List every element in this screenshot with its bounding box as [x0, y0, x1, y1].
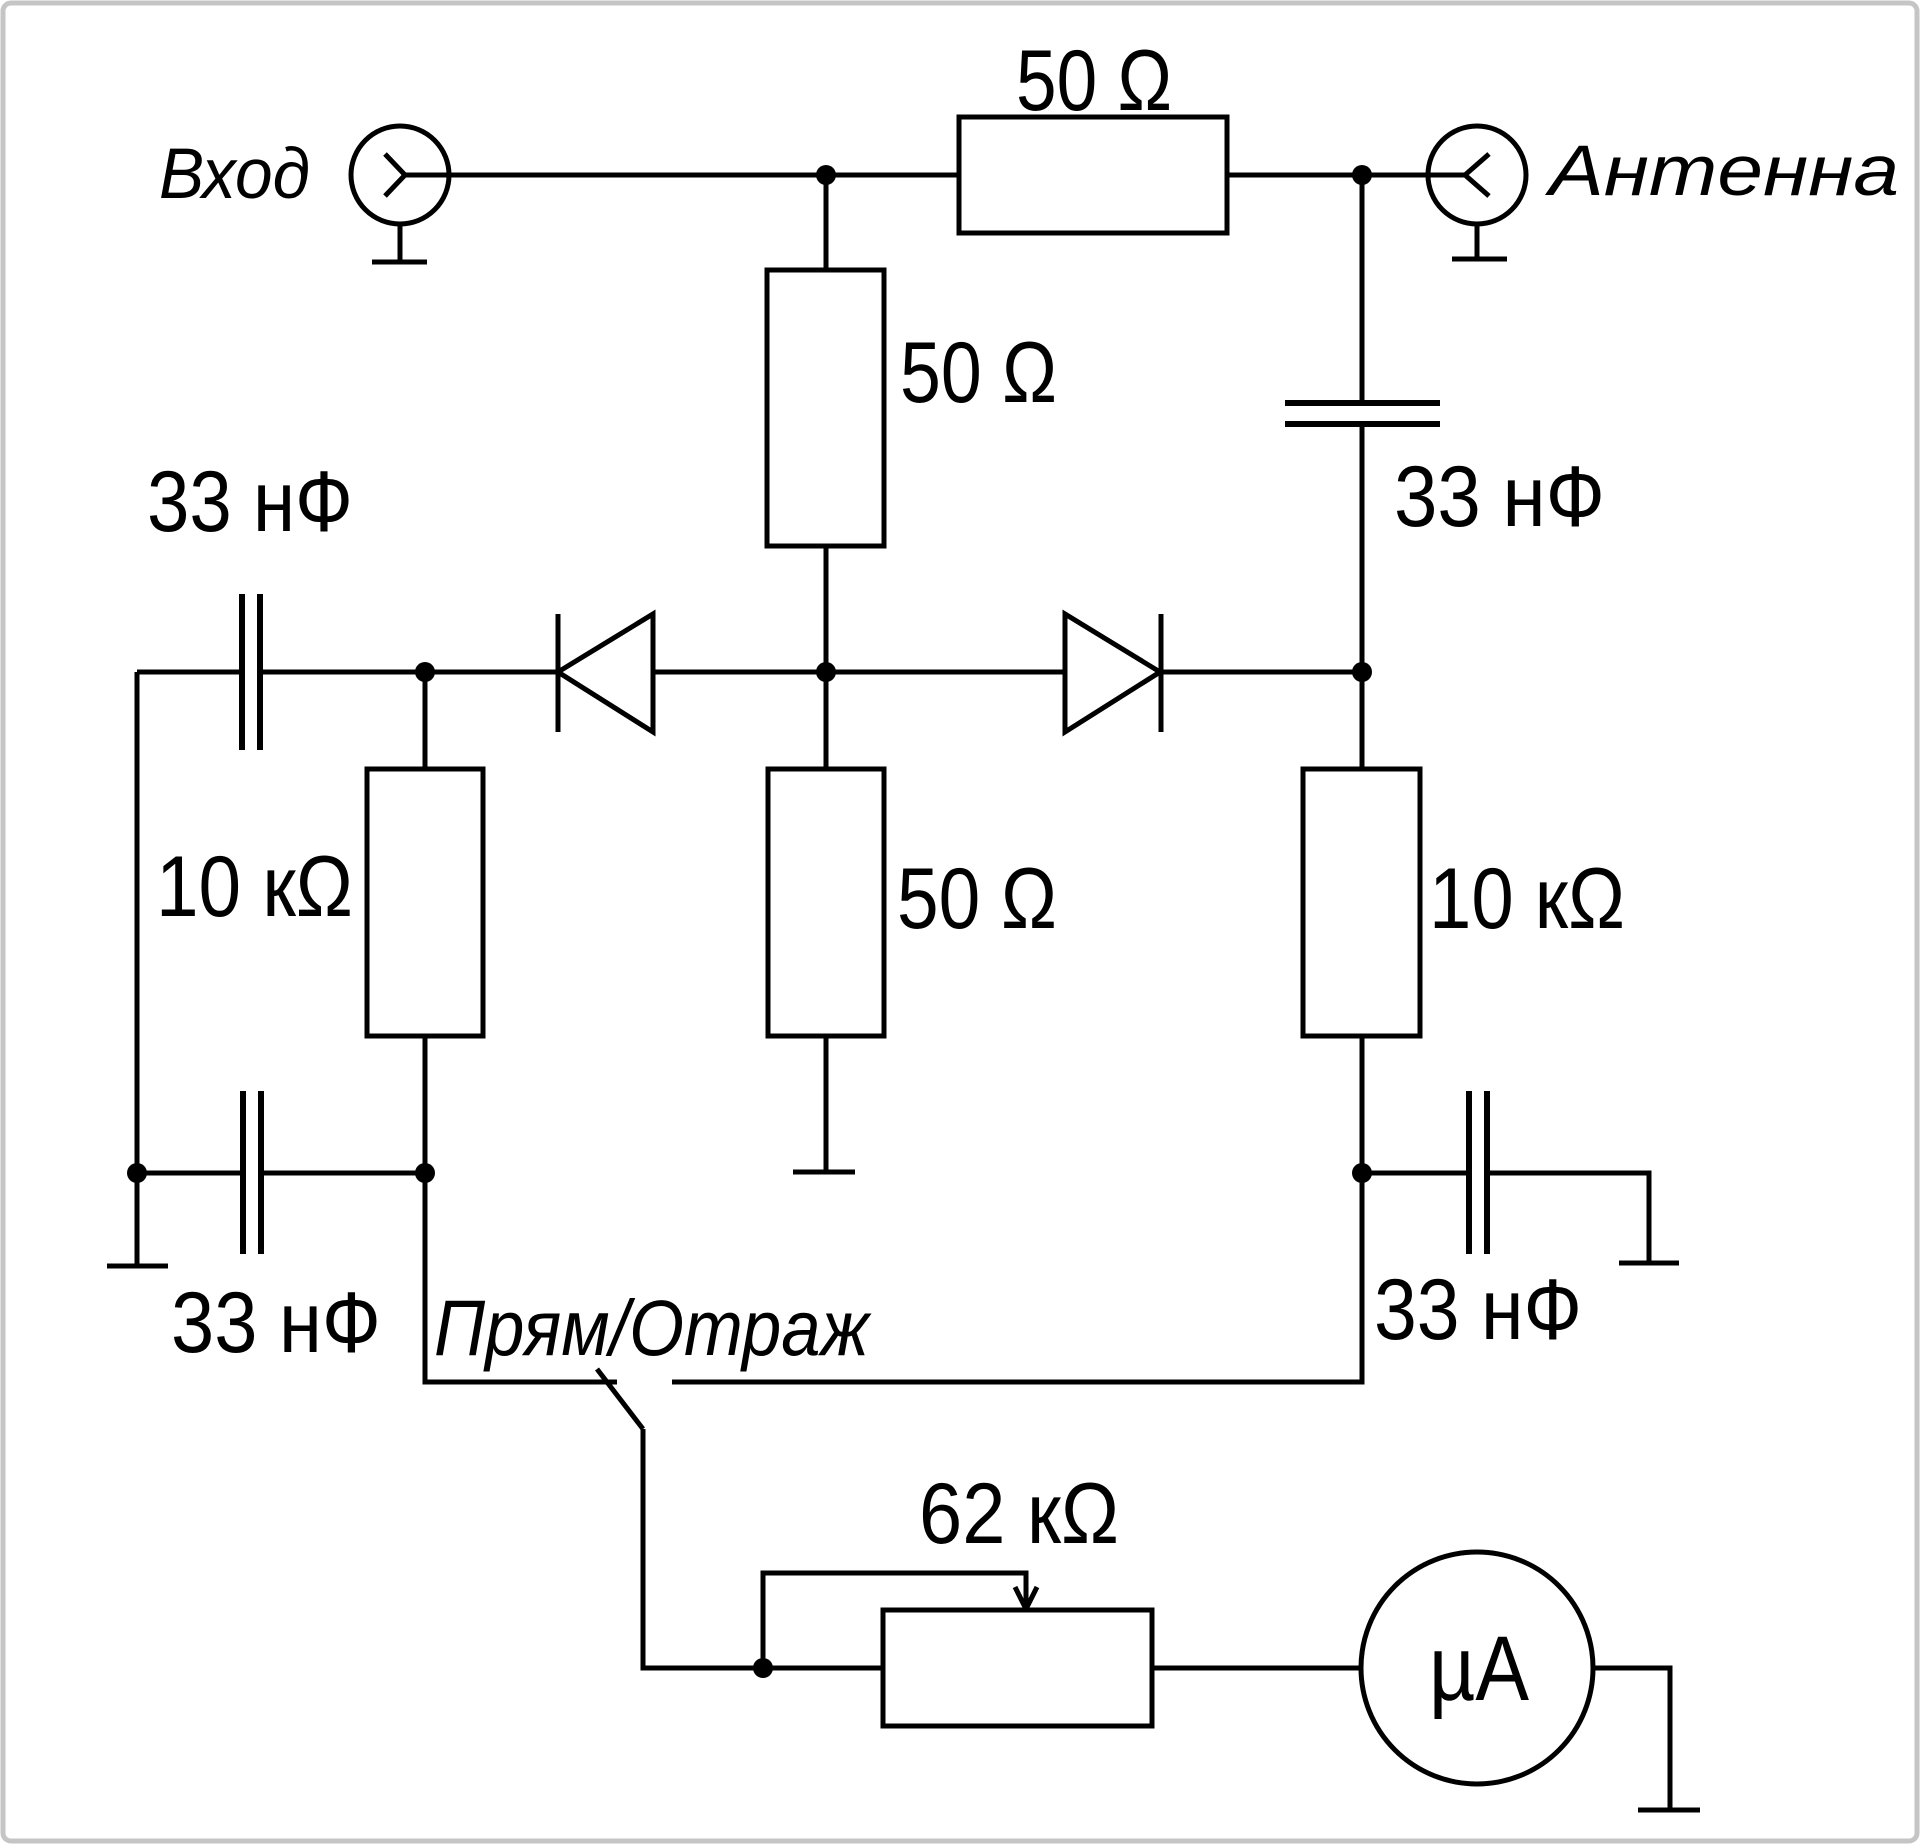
capacitor C1 33нФ	[1285, 403, 1440, 424]
wire left rail to C3	[137, 1171, 243, 1176]
svg-text:50 Ω: 50 Ω	[1016, 33, 1172, 129]
wire R1 to antenna node	[1227, 173, 1465, 178]
wire node A down to R2	[824, 175, 829, 270]
wire left node down to R3	[423, 672, 428, 769]
svg-text:Вход: Вход	[159, 135, 310, 214]
wire C4 to ground	[1487, 1173, 1649, 1263]
wire VD1 to middle node	[653, 670, 826, 675]
resistor R5 10кΩ (right)	[1303, 769, 1420, 1036]
ground (Антенна)	[1452, 223, 1507, 259]
wire Вход to R1	[405, 173, 959, 178]
svg-text:33 нФ: 33 нФ	[1394, 449, 1605, 545]
junction left mid node	[415, 662, 435, 682]
wire switch pole down to potentiometer node	[643, 1429, 883, 1668]
wire R5 to bottom right rail	[1360, 1036, 1365, 1173]
svg-text:50 Ω: 50 Ω	[897, 851, 1057, 947]
ground (left rail)	[107, 1173, 168, 1266]
ground (C4)	[1619, 1261, 1679, 1266]
wire left rail vertical	[135, 672, 140, 1173]
wire right node down to R5	[1360, 672, 1365, 769]
wire R2 to middle node	[824, 546, 829, 672]
meter PA1 µA	[1361, 1552, 1593, 1784]
svg-text:10 кΩ: 10 кΩ	[1429, 851, 1625, 947]
resistor R3 10кΩ (left)	[367, 769, 483, 1036]
svg-text:33 нФ: 33 нФ	[147, 454, 353, 550]
wire right bottom node to C4	[1362, 1171, 1469, 1176]
wire potentiometer to meter	[1152, 1666, 1361, 1671]
wire switch right contact to right bottom node	[672, 1173, 1362, 1382]
svg-text:µA: µA	[1429, 1618, 1530, 1720]
ground (Вход)	[372, 223, 427, 262]
connector X2 Антенна	[1428, 126, 1526, 224]
wire node B down to C1	[1360, 175, 1365, 403]
wire middle row left corner	[137, 670, 242, 675]
wire C3 to left bottom node	[261, 1171, 425, 1176]
wire R4 to ground	[824, 1036, 829, 1172]
ground (R4)	[793, 1170, 855, 1175]
capacitor C3 33нФ (bottom left)	[243, 1091, 261, 1254]
svg-text:62 кΩ: 62 кΩ	[919, 1466, 1119, 1562]
capacitor C2 33нФ (series left)	[242, 594, 260, 750]
ground (meter)	[1638, 1808, 1700, 1813]
potentiometer wiper arrow	[1015, 1587, 1037, 1609]
diode VD1 (cathode left)	[558, 614, 653, 732]
junction potentiometer node	[753, 1658, 773, 1678]
wire C1 to right middle node	[1360, 424, 1365, 672]
wire middle node down to R4	[824, 672, 829, 769]
junction left rail bottom	[127, 1163, 147, 1183]
potentiometer R6 62кΩ body	[883, 1610, 1152, 1726]
connector X1 Вход	[351, 126, 449, 224]
svg-text:Антенна: Антенна	[1544, 132, 1899, 211]
svg-text:50 Ω: 50 Ω	[900, 325, 1057, 421]
resistor R1 50Ω (bridge series)	[959, 117, 1227, 233]
wire wiper feedback	[763, 1573, 1026, 1668]
resistor R4 50Ω (middle)	[768, 769, 884, 1036]
resistor R2 50Ω (vertical)	[767, 270, 884, 546]
junction node A	[816, 165, 836, 185]
junction node B	[1352, 165, 1372, 185]
wire meter to ground	[1593, 1668, 1670, 1810]
junction right bottom node	[1352, 1163, 1372, 1183]
wire middle node to diode VD2	[826, 670, 1065, 675]
svg-text:33 нФ: 33 нФ	[1374, 1262, 1582, 1358]
junction middle node	[816, 662, 836, 682]
junction left bottom node	[415, 1163, 435, 1183]
wire R3 to bottom left rail	[423, 1036, 428, 1173]
svg-text:10 кΩ: 10 кΩ	[156, 839, 353, 935]
capacitor C4 33нФ (bottom right)	[1469, 1091, 1487, 1254]
switch SA1 blade	[597, 1369, 643, 1429]
diode VD2 (cathode right)	[1065, 614, 1161, 732]
svg-text:Прям/Отраж: Прям/Отраж	[434, 1283, 872, 1372]
wire left bottom node down to switch left contact	[425, 1173, 617, 1382]
junction right mid node	[1352, 662, 1372, 682]
wire VD2 to right node	[1161, 670, 1362, 675]
svg-text:33 нФ: 33 нФ	[171, 1275, 381, 1371]
wire C2 to diode VD1	[260, 670, 558, 675]
